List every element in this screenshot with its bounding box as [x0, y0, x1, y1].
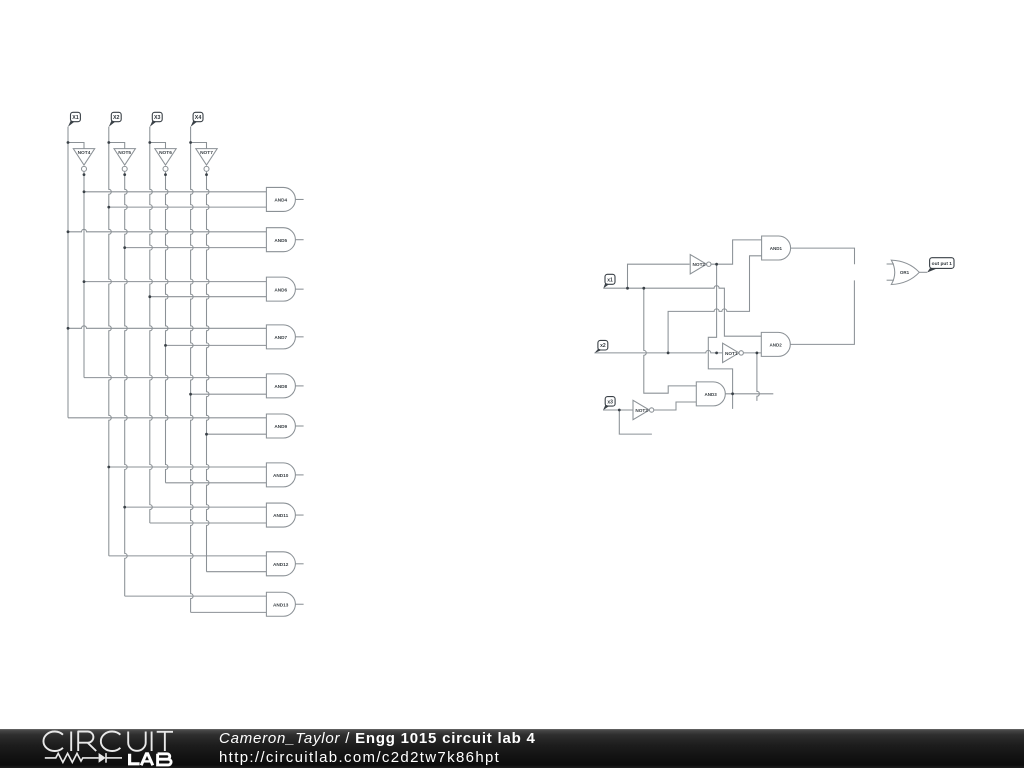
- wire AND12 bottom input (R18): [207, 571, 267, 573]
- wire AND8 bottom input (R10): [191, 393, 267, 395]
- AND gate AND11: [266, 503, 295, 527]
- footer bar: [0, 729, 1024, 768]
- wire AND2 output (dangling toward OR1): [790, 280, 854, 344]
- wire column c7: [191, 127, 194, 613]
- wire c3 to NOT5 input: [109, 143, 125, 149]
- AND gate AND6: [266, 277, 295, 301]
- wire AND5 bottom input (R4): [125, 247, 267, 249]
- wire AND11 bottom input (R16): [150, 522, 267, 524]
- wire column c3: [109, 127, 112, 556]
- wire AND12 top input (R17): [109, 555, 267, 557]
- wire AND9 output stub: [295, 425, 303, 427]
- node junction: [715, 263, 718, 266]
- node junction: [618, 409, 621, 412]
- wire AND10 output stub: [295, 474, 303, 476]
- wire x1 branch to NOT2 input: [628, 264, 690, 288]
- wire AND7 top input (R7): [68, 326, 266, 329]
- wire AND11 top input (R15): [125, 506, 267, 508]
- node junction: [67, 327, 70, 330]
- wire NOT1 output branch down (dangling): [757, 353, 760, 401]
- wire column c4: [125, 171, 128, 596]
- input flag x3: [603, 397, 615, 411]
- node junction: [123, 246, 126, 249]
- node junction: [164, 344, 167, 347]
- wire AND4 output stub: [295, 198, 303, 200]
- wire column c1: [67, 127, 69, 418]
- wire AND7 output stub: [295, 336, 303, 338]
- AND gate AND3: [696, 382, 725, 406]
- wire OR1 input stub A: [887, 263, 894, 265]
- wire column c2: [83, 171, 85, 377]
- NOT gate NOT6: [155, 149, 176, 172]
- input flag X3: [150, 112, 162, 127]
- NOT gate NOT7: [196, 149, 217, 172]
- input flag x2: [594, 340, 607, 353]
- node junction: [107, 466, 110, 469]
- wire c7 to NOT7 input: [191, 143, 207, 149]
- wire AND7 bottom input (R8): [166, 344, 267, 346]
- node junction: [756, 352, 759, 355]
- node junction: [67, 141, 70, 144]
- node junction: [107, 141, 110, 144]
- input flag x1: [603, 274, 615, 288]
- output flag out put 1: [927, 258, 954, 273]
- wire column c5: [150, 127, 153, 523]
- node junction: [731, 392, 734, 395]
- OR gate OR1: [891, 260, 919, 284]
- AND gate AND4: [266, 187, 295, 211]
- AND gate AND2: [761, 332, 790, 356]
- wire AND4 top input (R1): [84, 191, 266, 193]
- wire c1 to NOT4 input: [68, 143, 84, 149]
- wire OR1 input stub B: [887, 279, 894, 281]
- AND gate AND9: [266, 414, 295, 438]
- AND gate AND7: [266, 325, 295, 349]
- node junction: [123, 173, 126, 176]
- wire AND5 output stub: [295, 239, 303, 241]
- wire AND11 output stub: [295, 514, 303, 516]
- node junction: [164, 173, 167, 176]
- node junction: [83, 173, 86, 176]
- wire column c8: [207, 171, 210, 572]
- wire x1 net horizontal, corner down to AND2 top input: [603, 286, 761, 337]
- node junction: [148, 141, 151, 144]
- input flag X4: [191, 112, 203, 127]
- wire AND8 output stub: [295, 385, 303, 387]
- wire AND5 top input (R3): [68, 229, 266, 232]
- node junction: [123, 506, 126, 509]
- CircuitLab logo resistor-diode symbol: [45, 753, 122, 763]
- node junction: [189, 141, 192, 144]
- wire AND6 top input (R5): [84, 281, 266, 283]
- node junction: [642, 287, 645, 290]
- CircuitLab logo word CIRCUIT: [43, 732, 173, 752]
- wire AND13 output stub: [295, 603, 303, 605]
- NOT gate NOT2: [690, 255, 711, 274]
- wire AND1 output (dangling toward OR1): [791, 248, 855, 264]
- node junction: [626, 287, 629, 290]
- node junction: [715, 352, 718, 355]
- wire column c6: [166, 171, 169, 483]
- input flag X1: [68, 112, 80, 127]
- wire AND3 output (dangling): [725, 393, 773, 395]
- wire AND6 output stub: [295, 288, 303, 290]
- wire NOT1 output to AND2 bottom input: [744, 352, 762, 354]
- wire AND13 top input (R19): [125, 595, 267, 597]
- wire AND9 top input (R11): [68, 417, 266, 419]
- wire x3 net: [603, 409, 633, 411]
- wire OR1 output stub: [919, 271, 927, 273]
- wire AND10 top input (R13): [109, 466, 267, 468]
- NOT gate NOT5: [114, 149, 135, 172]
- node junction: [107, 206, 110, 209]
- wire NOT2 output to AND1 top input: [711, 240, 761, 264]
- wire NOT2 output branch down (jogging): [708, 264, 732, 409]
- NOT gate NOT4: [73, 149, 94, 172]
- node junction: [83, 190, 86, 193]
- AND gate AND13: [266, 592, 295, 616]
- AND gate AND1: [762, 236, 791, 260]
- node junction: [83, 280, 86, 283]
- wire x2 net horizontal: [594, 350, 722, 352]
- AND gate AND10: [266, 463, 295, 487]
- node junction: [67, 230, 70, 233]
- wire AND9 bottom input (R12): [207, 433, 267, 435]
- wire AND13 bottom input (R20): [191, 611, 267, 613]
- AND gate AND12: [266, 552, 295, 576]
- wire x3 branch down (dangling): [619, 410, 652, 434]
- node junction: [189, 393, 192, 396]
- wire x2 branch up to AND1 bottom input: [668, 256, 762, 353]
- NOT gate NOT1: [723, 343, 744, 362]
- wire AND12 output stub: [295, 563, 303, 565]
- credit text line 2: [219, 750, 500, 765]
- CircuitLab logo diode triangle: [99, 753, 106, 763]
- wire x1 branch down to AND3 top input: [644, 288, 697, 393]
- node junction: [205, 173, 208, 176]
- credit text line 1: [219, 731, 536, 746]
- wire AND6 bottom input (R6): [150, 296, 267, 298]
- wire c5 to NOT6 input: [150, 143, 166, 149]
- node junction: [205, 433, 208, 436]
- input flag X2: [109, 112, 121, 127]
- wire AND10 bottom input (R14): [166, 482, 267, 484]
- AND gate AND8: [266, 374, 295, 398]
- node junction: [667, 352, 670, 355]
- node junction: [148, 295, 151, 298]
- CircuitLab logo word LAB: [130, 754, 172, 766]
- wire AND4 bottom input (R2): [109, 206, 267, 208]
- NOT gate NOT3: [633, 400, 654, 419]
- wire NOT3 output to AND3 bottom input: [654, 402, 696, 410]
- AND gate AND5: [266, 228, 295, 252]
- wire AND8 top input (R9): [84, 377, 266, 379]
